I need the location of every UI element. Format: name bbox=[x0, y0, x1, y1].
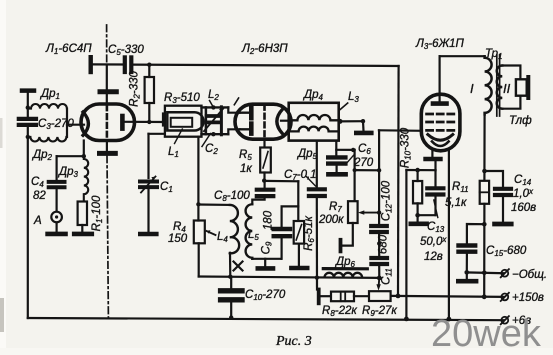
tube L3 grid rows bbox=[427, 114, 454, 130]
top rail wire left bbox=[92, 63, 123, 65]
wire cathode node bbox=[434, 161, 436, 170]
wire R5 bottom bbox=[263, 173, 265, 181]
svg-text:С12-100: С12-100 bbox=[381, 180, 394, 221]
wire C8 top to R5 node bbox=[264, 181, 266, 188]
wire C15 bottom bbox=[466, 254, 468, 273]
svg-text:1к: 1к bbox=[240, 163, 252, 175]
svg-text:R9-27к: R9-27к bbox=[362, 305, 397, 318]
choke Dr6 bbox=[325, 273, 363, 278]
tube L3 right lead bbox=[448, 149, 450, 319]
resistor R9 bbox=[369, 291, 391, 301]
L2 right line bbox=[220, 107, 223, 135]
wire tank to tube anodes bbox=[228, 107, 240, 112]
tube L1 envelope bbox=[81, 104, 135, 141]
L2 C2 tank top rail bbox=[202, 106, 229, 108]
wire C12 column bbox=[378, 130, 380, 224]
wire R4 bottom bbox=[198, 243, 200, 276]
svg-text:R8-22к: R8-22к bbox=[322, 305, 357, 318]
terminal +150V bbox=[501, 293, 509, 301]
wire R8-R9 bbox=[354, 295, 369, 297]
wire C9 top bbox=[282, 206, 299, 226]
junction dots left column bbox=[26, 105, 30, 139]
wire left input column bbox=[27, 92, 29, 117]
capacitor C9 bbox=[274, 229, 290, 236]
svg-text:А: А bbox=[33, 215, 42, 227]
svg-text:12в: 12в bbox=[424, 251, 443, 263]
pointer 270 label bbox=[345, 155, 354, 165]
svg-text:+150в: +150в bbox=[512, 292, 544, 304]
capacitor C8 bbox=[257, 190, 274, 196]
tube L1 cathode arc bbox=[83, 112, 88, 135]
tube L2 cathode lead bbox=[281, 120, 289, 122]
tube L1 bottom lead bbox=[106, 141, 108, 152]
cathode contact bar bbox=[426, 157, 441, 162]
tube L1 cathode bottom lead bbox=[83, 141, 85, 157]
wire heater column bbox=[405, 170, 407, 319]
svg-text:R3-510: R3-510 bbox=[164, 92, 200, 105]
svg-text:Л1-6С4П: Л1-6С4П bbox=[45, 43, 92, 56]
wire R7 top column bbox=[354, 150, 356, 201]
tube L1 grid top lead bbox=[106, 65, 108, 104]
capacitor C6 bbox=[328, 157, 345, 163]
tube L2 envelope bbox=[235, 104, 291, 139]
svg-text:82: 82 bbox=[33, 190, 46, 202]
coil L1 slug bbox=[171, 118, 193, 127]
tube L2 anode bar lower bbox=[249, 124, 254, 134]
wire C4 branch bbox=[55, 156, 57, 180]
R7 end terminal bar bbox=[339, 240, 343, 252]
tube L1 bottom contact bar bbox=[100, 151, 116, 156]
bottom +6V rail bbox=[28, 318, 504, 320]
svg-text:Л2-6Н3П: Л2-6Н3П bbox=[241, 43, 288, 56]
R3 left connector bar bbox=[162, 114, 165, 125]
svg-text:680: 680 bbox=[378, 234, 390, 254]
shield dash-dot line lower bbox=[107, 156, 108, 318]
wire C6 column bbox=[335, 141, 337, 155]
wire detector output bbox=[340, 120, 363, 122]
quench wire bottom bbox=[199, 277, 380, 278]
choke shield box Dr4 Dr5 bbox=[289, 103, 339, 141]
node cathode bias bbox=[57, 155, 84, 157]
svg-text:II: II bbox=[503, 81, 511, 96]
wire R11 bottom bbox=[483, 204, 485, 297]
capacitor C2 plates bbox=[207, 116, 221, 122]
pointer L2 label bbox=[210, 101, 213, 107]
wire bbox=[81, 225, 83, 232]
R9 wiper arrow bbox=[378, 278, 381, 286]
wire to L4 top bbox=[198, 203, 229, 206]
svg-text:R6-51к: R6-51к bbox=[303, 216, 316, 251]
headphone Tlf box bbox=[516, 79, 527, 95]
resistor R5 bbox=[260, 148, 271, 173]
wire L5 bottom bbox=[252, 258, 281, 260]
capacitor C14 bbox=[495, 189, 511, 195]
choke Dr4 bbox=[289, 115, 339, 120]
resistor R3 box bbox=[165, 106, 202, 137]
tube L1 anode lead bbox=[125, 121, 164, 123]
shield dash-dot line upper bbox=[106, 25, 108, 64]
svg-text:С15-680: С15-680 bbox=[486, 245, 527, 258]
tube L1 grid dashed bbox=[106, 106, 109, 140]
wire R6 column bbox=[297, 181, 299, 221]
ground under R10 bbox=[417, 215, 419, 221]
wire L4 bottom bbox=[229, 253, 232, 277]
R4 wiper arrow bbox=[207, 231, 216, 235]
wire C9 bottom bbox=[281, 238, 283, 258]
wire grid line L3 horizontal bbox=[379, 129, 422, 132]
ground under R1 bbox=[74, 232, 92, 237]
resistor R2 bbox=[145, 77, 154, 103]
svg-text:С3-270: С3-270 bbox=[38, 118, 74, 131]
wire bbox=[27, 127, 29, 318]
svg-text:R10-330: R10-330 bbox=[400, 127, 413, 168]
wire C7 column bbox=[316, 141, 318, 187]
L2 C2 tank bottom rail bbox=[202, 133, 229, 135]
choke Dr3 bbox=[84, 158, 88, 201]
wire C1 branch top bbox=[147, 134, 149, 178]
choke Dr1 bbox=[28, 104, 67, 109]
tube L1 anode bar bbox=[120, 116, 125, 129]
top rail terminal bar bbox=[88, 57, 92, 72]
capacitor C15 bbox=[459, 246, 476, 252]
wire C6 node right bbox=[336, 149, 354, 151]
pointer C7 label bbox=[306, 177, 315, 187]
svg-text:Тлф: Тлф bbox=[509, 115, 532, 127]
wire bbox=[147, 189, 149, 232]
tube L3 anode bar bbox=[433, 101, 447, 106]
capacitor C13 bbox=[427, 188, 443, 194]
ground bar tank bbox=[258, 266, 273, 271]
svg-text:Л3-6Ж1П: Л3-6Ж1П bbox=[415, 38, 465, 51]
wire primary bottom bbox=[483, 114, 485, 180]
svg-text:Рис. 3: Рис. 3 bbox=[275, 334, 312, 349]
common wire bbox=[466, 271, 504, 274]
transformer Tr1 core bbox=[497, 55, 500, 116]
transformer Tr1 primary coil bbox=[485, 56, 492, 114]
svg-text:200к: 200к bbox=[318, 214, 344, 226]
tube L2 label pointer bbox=[234, 98, 238, 105]
svg-text:−Общ.: −Общ. bbox=[512, 269, 547, 281]
wire L5 top bbox=[252, 198, 264, 204]
ground bar under R6 bbox=[291, 266, 307, 271]
wire C6 bottom bbox=[336, 166, 338, 172]
wire secondary bottom bbox=[502, 96, 520, 109]
tube L2 anode bar upper bbox=[249, 108, 254, 118]
coil L4 bbox=[230, 205, 239, 254]
capacitor C3 bbox=[19, 119, 36, 125]
svg-text:5,1к: 5,1к bbox=[445, 197, 467, 209]
wire R7 bottom bbox=[343, 223, 353, 246]
paper edge tint bbox=[0, 0, 6, 355]
ground bar under C6 bbox=[328, 172, 345, 177]
transformer Tr1 primary wire bbox=[440, 55, 485, 57]
pointer C13 label bbox=[434, 200, 438, 218]
terminal bar R8 left bbox=[317, 290, 321, 304]
capacitor C11 bbox=[371, 258, 387, 264]
wire C15 branch bbox=[467, 224, 484, 243]
svg-text:180: 180 bbox=[263, 210, 275, 230]
tube L3 cathode arc bbox=[428, 135, 453, 141]
coil L1 loop bbox=[167, 112, 203, 130]
wire C7 bottom bbox=[316, 198, 318, 289]
antenna terminal bar top-left bbox=[22, 88, 34, 93]
wire R2 top bbox=[148, 65, 150, 77]
resistor R6 bbox=[294, 221, 304, 244]
svg-text:20wek: 20wek bbox=[431, 313, 542, 355]
wire R9 to +150V rail bbox=[391, 296, 504, 297]
wire R5 node to R6 bbox=[265, 180, 299, 183]
svg-text:С8-100: С8-100 bbox=[214, 190, 250, 203]
wire C12-C11 bbox=[378, 234, 380, 256]
terminal +6V bbox=[501, 316, 509, 324]
choke Dr2 bbox=[28, 137, 67, 142]
tube L3 anode lead bbox=[439, 56, 441, 101]
wire bbox=[321, 295, 332, 297]
wire R7 tee bbox=[355, 169, 380, 171]
capacitor C5 bbox=[125, 57, 132, 72]
wire B+ vertical right bbox=[397, 66, 400, 295]
resistor R10 bbox=[413, 181, 422, 203]
ground bar common bbox=[466, 272, 468, 279]
ground stub tank bbox=[264, 259, 266, 266]
cross mark X bbox=[234, 262, 243, 271]
tube L3 heater arc bbox=[432, 142, 449, 147]
capacitor C7 bbox=[309, 189, 325, 196]
capacitor C4 bbox=[49, 182, 65, 187]
resistor R4 bbox=[194, 221, 205, 244]
capacitor C1 trimmer bbox=[140, 177, 157, 193]
svg-text:С7-0,1: С7-0,1 bbox=[284, 169, 317, 182]
terminal common bbox=[501, 269, 509, 277]
tube L2 grid lead down bbox=[263, 139, 265, 147]
top rail wire main bbox=[134, 65, 399, 66]
pointer L1 label bbox=[175, 129, 183, 144]
ground under A bbox=[48, 232, 66, 237]
node left coil junction bbox=[66, 109, 68, 137]
wire C11 bottom bbox=[378, 266, 380, 278]
wire down to ground bbox=[362, 121, 365, 131]
antenna jack A bbox=[51, 212, 62, 223]
tube L2 cathode arc bbox=[277, 109, 283, 133]
svg-text:R2-330: R2-330 bbox=[129, 71, 142, 107]
wire secondary top bbox=[502, 66, 520, 80]
svg-text:160в: 160в bbox=[511, 202, 536, 214]
svg-text:С5-330: С5-330 bbox=[108, 44, 144, 57]
output junction dot bbox=[338, 119, 343, 124]
capacitor C12 bbox=[371, 226, 387, 232]
choke Dr6 core bar bbox=[323, 267, 367, 270]
svg-text:270: 270 bbox=[353, 157, 374, 169]
R7 wiper arrow bbox=[363, 212, 379, 214]
capacitor C10 bbox=[221, 291, 242, 300]
wire R4 column bbox=[197, 137, 199, 205]
C14 ground bar bbox=[495, 222, 512, 227]
ground bar bbox=[356, 131, 371, 136]
svg-text:С10-270: С10-270 bbox=[245, 289, 286, 302]
wire C14 branch bbox=[485, 171, 504, 187]
tube L3 envelope bbox=[421, 94, 460, 151]
svg-text:I: I bbox=[470, 81, 474, 96]
wire R6 bottom bbox=[298, 244, 300, 266]
wire bbox=[55, 222, 57, 231]
resistor R7 bbox=[348, 201, 358, 223]
wire cathode RC bottom bbox=[418, 214, 436, 216]
wire C14 bottom bbox=[502, 197, 504, 221]
resistor R11 bbox=[480, 181, 489, 204]
C2 trimmer arrow bbox=[204, 108, 224, 131]
wire cathode lead L1 tube bbox=[67, 124, 84, 126]
wire R2 bottom bbox=[148, 103, 150, 122]
svg-text:150: 150 bbox=[168, 233, 188, 245]
L3 label pointer bbox=[340, 103, 348, 110]
tube L1 grid top contact bar bbox=[100, 89, 116, 94]
coil L5 bbox=[246, 204, 253, 259]
tube L3 cathode lead bbox=[431, 150, 433, 157]
tube L2 grid dashed bbox=[263, 105, 266, 139]
tube L2 anode leads bbox=[240, 113, 249, 130]
resistor R8 bbox=[331, 292, 354, 302]
ground under C1 bbox=[140, 232, 156, 237]
resistor R1 bbox=[78, 202, 87, 226]
headphone Tlf bar bbox=[526, 77, 530, 98]
svg-text:R1-100: R1-100 bbox=[91, 195, 104, 231]
pointer C2 label bbox=[202, 134, 211, 147]
transformer Tr1 secondary coil bbox=[497, 66, 503, 109]
wire bbox=[55, 190, 57, 212]
L2 left line bbox=[205, 107, 208, 134]
choke Dr5 bbox=[289, 127, 339, 132]
